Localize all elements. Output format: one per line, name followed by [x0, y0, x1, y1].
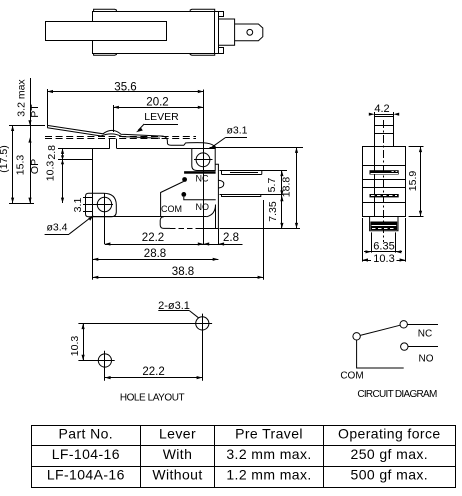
- top tab: [219, 12, 224, 17]
- slot NO (end view): [370, 194, 399, 197]
- svg-text:Operating force: Operating force: [338, 426, 441, 442]
- dim 38.8: [263, 200, 265, 280]
- body right edge: [215, 164, 218, 228]
- svg-text:15.3: 15.3: [15, 155, 27, 176]
- bottom bump left: [94, 53, 117, 55]
- svg-text:OP: OP: [29, 159, 41, 174]
- lever hinge hook: [184, 143, 216, 149]
- dim 15.9: [409, 146, 424, 148]
- svg-text:10.3: 10.3: [69, 336, 81, 357]
- bottom dims 22.2 / 2.8: [104, 217, 106, 244]
- svg-text:22.2: 22.2: [142, 232, 164, 244]
- svg-text:38.8: 38.8: [172, 266, 194, 278]
- svg-text:COM: COM: [161, 204, 182, 214]
- svg-text:22.2: 22.2: [142, 366, 164, 378]
- svg-text:COM: COM: [340, 371, 363, 382]
- S-bump on right edge: [219, 180, 224, 188]
- slot COM (end view): [370, 222, 397, 231]
- common node: [353, 333, 360, 340]
- svg-text:Part No.: Part No.: [59, 426, 114, 442]
- lever (top view): [46, 22, 167, 41]
- svg-text:15.9: 15.9: [407, 171, 419, 192]
- svg-text:LEVER: LEVER: [144, 111, 179, 123]
- svg-text:500 gf max.: 500 gf max.: [351, 466, 429, 482]
- svg-text:3.2 mm max.: 3.2 mm max.: [226, 446, 311, 462]
- svg-text:2.8: 2.8: [46, 145, 58, 160]
- svg-text:1.2 mm max.: 1.2 mm max.: [226, 466, 311, 482]
- svg-text:CIRCUIT DIAGRAM: CIRCUIT DIAGRAM: [357, 389, 437, 400]
- dim 6.35: [371, 232, 373, 252]
- NO terminal: [401, 343, 408, 350]
- svg-text:NO: NO: [419, 354, 434, 365]
- svg-text:Pre Travel: Pre Travel: [235, 426, 303, 442]
- slot NC (end view): [370, 170, 399, 174]
- right side dims 5.7 / 7.35 / 18.8: [210, 147, 304, 149]
- dim 10.3 (end view): [362, 218, 364, 262]
- boss (top-right) with hinge hole: [192, 149, 215, 171]
- terminal blade (top view): [235, 24, 263, 41]
- svg-text:HOLE LAYOUT: HOLE LAYOUT: [120, 392, 185, 403]
- wire NO right: [408, 346, 438, 348]
- switch body (top view): [93, 12, 215, 54]
- svg-text:Without: Without: [152, 466, 202, 482]
- svg-text:LF-104-16: LF-104-16: [52, 446, 120, 462]
- svg-text:(17.5): (17.5): [0, 145, 10, 172]
- svg-text:6.35: 6.35: [373, 241, 394, 253]
- internal contacts: [182, 177, 187, 182]
- end cap: [215, 12, 219, 54]
- svg-text:ø3.4: ø3.4: [46, 222, 67, 234]
- svg-text:10.3: 10.3: [45, 161, 57, 182]
- hole B (lower left): [98, 354, 111, 367]
- top bump right: [190, 9, 215, 11]
- svg-text:250 gf max.: 250 gf max.: [351, 446, 429, 462]
- terminal hole (top view): [247, 29, 253, 35]
- lever dashed position: [45, 136, 196, 138]
- bottom tab: [219, 48, 224, 54]
- NC terminal: [400, 321, 407, 328]
- mounting lug with hole 3.4: [86, 193, 117, 217]
- extension line through hole center (vertical): [203, 90, 205, 245]
- NC blade: [220, 170, 288, 172]
- svg-text:28.8: 28.8: [144, 248, 166, 260]
- terminal flange (top view): [219, 19, 235, 45]
- svg-text:7.35: 7.35: [267, 201, 279, 222]
- hole 3.1 circle: [196, 153, 210, 167]
- svg-text:10.3: 10.3: [373, 253, 394, 265]
- svg-text:18.8: 18.8: [281, 177, 293, 198]
- plunger pin: [109, 139, 111, 149]
- svg-text:NO: NO: [196, 202, 210, 212]
- table frame: [32, 426, 456, 488]
- svg-text:Lever: Lever: [159, 426, 196, 442]
- svg-text:3.2 max: 3.2 max: [16, 79, 28, 117]
- bottom bump right: [190, 53, 215, 55]
- body (end view): [363, 147, 406, 217]
- plunger (end view): [375, 117, 394, 147]
- inner base line + corner arc: [93, 216, 207, 218]
- dim 22.2 (hole layout): [104, 368, 106, 381]
- svg-text:With: With: [163, 446, 193, 462]
- lever arm: [47, 125, 184, 145]
- COM terminal bottom strip: [160, 217, 170, 229]
- svg-text:NC: NC: [196, 174, 209, 184]
- svg-text:20.2: 20.2: [146, 96, 168, 108]
- svg-text:4.2: 4.2: [374, 103, 389, 115]
- body outline: [93, 148, 110, 150]
- hole A (upper right): [196, 317, 209, 330]
- svg-text:3.1: 3.1: [72, 198, 84, 213]
- centerline: [383, 120, 385, 242]
- svg-text:ø3.1: ø3.1: [226, 125, 247, 137]
- wire node to NC: [360, 325, 400, 335]
- top bump left: [94, 9, 117, 11]
- svg-text:2.8: 2.8: [223, 232, 239, 244]
- dim 28.8: [92, 217, 94, 280]
- dim 10.3 (hole layout): [78, 323, 195, 325]
- wire NC right: [407, 324, 438, 326]
- NO blade: [220, 194, 283, 196]
- wire COM: [357, 340, 404, 368]
- svg-text:5.7: 5.7: [266, 178, 278, 193]
- bottom neck: [370, 216, 398, 231]
- svg-text:NC: NC: [418, 329, 432, 340]
- svg-text:LF-104A-16: LF-104A-16: [47, 466, 125, 482]
